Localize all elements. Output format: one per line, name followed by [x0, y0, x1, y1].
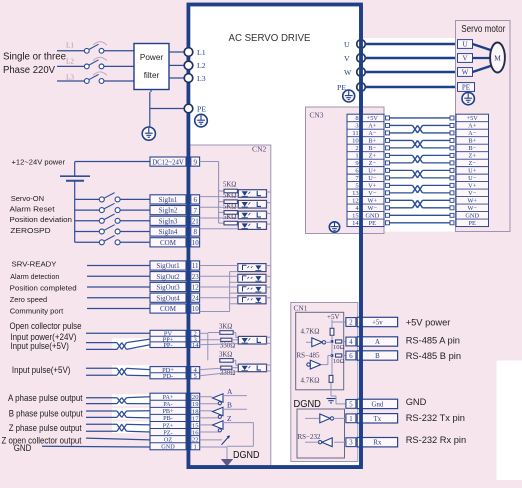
pad encoder A- [386, 131, 455, 135]
resistor 4.7K b [329, 375, 333, 382]
pad encoder A+ [386, 123, 455, 127]
switch SigIn2 [99, 203, 120, 212]
wire switch to SigIn4 [120, 231, 150, 233]
svg-text:PA-: PA- [163, 401, 172, 408]
wire tap RSigIn2 [219, 201, 224, 203]
svg-text:V: V [344, 54, 350, 63]
wire opto PD out1 [267, 364, 271, 366]
wire L2 to filter [104, 65, 134, 67]
terminal PE right [357, 83, 366, 92]
pad encoder GND [386, 213, 455, 217]
resistor 330 a [221, 338, 232, 341]
white wire channel drive to motor [363, 38, 456, 232]
pad encoder Z- [386, 161, 455, 165]
terminal COM pin 10 [150, 238, 200, 247]
svg-text:8: 8 [193, 228, 197, 236]
svg-text:L3: L3 [197, 74, 206, 83]
svg-text:Z: Z [227, 414, 232, 423]
wire PP- to opto [200, 344, 239, 345]
svg-text:SigIn2: SigIn2 [159, 207, 178, 215]
svg-text:14: 14 [352, 220, 359, 227]
wire encoder pair B+ [390, 140, 451, 147]
white area bottom right [497, 361, 522, 481]
svg-text:Single or three: Single or three [3, 52, 66, 63]
wire 3Kb to opto [233, 360, 238, 365]
svg-text:Open collector pulse: Open collector pulse [10, 321, 82, 331]
wire encoder pair W+ [390, 200, 451, 207]
svg-text:22: 22 [192, 437, 199, 444]
wire PP- left [86, 348, 117, 350]
svg-text:3KΩ: 3KΩ [219, 351, 232, 358]
wire driver out B [223, 408, 247, 410]
svg-text:SigIn3: SigIn3 [159, 217, 178, 225]
svg-text:A: A [227, 387, 233, 396]
wire to driver A- [200, 403, 220, 405]
svg-text:U+: U+ [368, 168, 377, 175]
svg-text:Community port: Community port [10, 306, 64, 315]
pad encoder W- [386, 206, 455, 210]
svg-text:PE: PE [469, 220, 477, 227]
wire tap RSigIn3 [219, 211, 224, 213]
terminal V right [357, 54, 366, 63]
svg-text:2: 2 [349, 320, 353, 327]
wire encoder pair A+ [390, 125, 451, 132]
svg-text:Zero speed: Zero speed [10, 295, 47, 304]
wire R to opto SigIn1 [237, 190, 239, 192]
wire pin4 [342, 341, 346, 343]
pad encoder Z+ [386, 153, 455, 157]
connector CN3 region [306, 107, 385, 234]
svg-text:COM: COM [160, 239, 177, 247]
wire PA- left [86, 403, 117, 405]
svg-text:Z−: Z− [468, 160, 476, 167]
AC servo drive body [189, 5, 361, 468]
wire switch to SigIn2 [120, 209, 150, 211]
optocoupler SigIn4 [238, 222, 266, 230]
terminal SigIn2 pin 7 [150, 206, 200, 215]
svg-text:12: 12 [192, 284, 200, 292]
wire COM rail [200, 272, 230, 312]
resistor 3K b [220, 359, 233, 363]
optocoupler PP [238, 336, 266, 344]
resistor 10 b [336, 354, 342, 357]
connector CN2 region [190, 145, 271, 466]
svg-text:B phase pulse output: B phase pulse output [9, 408, 83, 418]
optocoupler SigOut4 [238, 296, 266, 304]
svg-text:17: 17 [192, 415, 199, 422]
optocoupler SigIn3 [238, 211, 266, 219]
twisted pair encoder W+ [413, 200, 423, 207]
svg-text:Tx: Tx [374, 416, 382, 423]
wire PB+ left [86, 410, 117, 412]
CN3 pin table [347, 114, 384, 227]
svg-text:24: 24 [192, 294, 200, 302]
svg-text:2: 2 [355, 145, 358, 152]
svg-text:SigOut4: SigOut4 [156, 294, 180, 302]
terminal SigOut3 pin 12 [150, 282, 200, 291]
motor encoder pin table [456, 114, 489, 227]
terminal SigIn3 pin 21 [150, 216, 200, 225]
svg-text:B−: B− [468, 145, 476, 152]
wire opto out SigOut2 [266, 275, 270, 277]
pad encoder U+ [386, 168, 455, 172]
ground motor PE [462, 92, 474, 105]
switch S3 [84, 74, 104, 83]
svg-text:U−: U− [468, 175, 477, 182]
transistor OZ arrow [222, 435, 230, 445]
terminal block PV PP+ PP- [150, 330, 200, 349]
resistor 10 a [336, 340, 342, 343]
svg-text:14: 14 [192, 342, 199, 349]
servo motor box [456, 21, 511, 232]
svg-text:18: 18 [192, 408, 199, 415]
svg-text:A+: A+ [468, 123, 477, 130]
svg-text:19: 19 [192, 401, 199, 408]
svg-text:A: A [375, 339, 380, 346]
svg-text:L3: L3 [66, 74, 74, 82]
wire 5v rail [332, 320, 346, 329]
wire SigOut2 to opto [200, 275, 238, 277]
wire to COM switch [75, 241, 100, 243]
terminal U right [357, 40, 366, 49]
wire to switch SigIn1 [75, 198, 100, 200]
svg-text:23: 23 [192, 273, 200, 281]
wire R to opto SigIn2 [237, 201, 239, 203]
svg-text:9: 9 [193, 158, 197, 166]
svg-text:L1: L1 [66, 42, 74, 50]
wire PA+ left [86, 397, 117, 399]
pad encoder B+ [386, 138, 455, 142]
buffer rs485 b [307, 356, 332, 370]
svg-text:GND: GND [406, 397, 427, 407]
wire pin9 feed [200, 162, 219, 224]
wire encoder +5V [390, 117, 451, 119]
svg-text:SigOut2: SigOut2 [156, 273, 180, 281]
svg-text:RS-232 Rx pin: RS-232 Rx pin [406, 435, 466, 445]
terminal DC12~24V pin 9 [150, 157, 200, 166]
resistor 5K SigIn1 [224, 189, 237, 193]
wire R330b to opto [232, 367, 238, 369]
wire to driver B+ [200, 410, 212, 412]
wire encoder GND [390, 214, 451, 216]
wire pin5 [331, 396, 346, 404]
wire SigIn1 to opto [200, 196, 239, 198]
svg-text:CN3: CN3 [310, 111, 324, 120]
svg-text:OZ: OZ [164, 436, 172, 443]
svg-text:10: 10 [192, 239, 200, 247]
svg-text:L1: L1 [197, 48, 206, 57]
wire encoder pair V+ [390, 185, 451, 192]
wire motor W [473, 66, 493, 73]
optocoupler SigOut3 [238, 285, 266, 293]
wire PD- right [127, 374, 151, 377]
svg-text:Z+: Z+ [369, 153, 377, 160]
svg-text:DC12~24V: DC12~24V [152, 159, 184, 166]
svg-text:PE: PE [197, 104, 206, 113]
wire to driver B- [200, 417, 220, 419]
terminal CN1 pin 1 [346, 414, 398, 423]
svg-text:+5v: +5v [372, 320, 383, 327]
wire filter to L1 terminal [169, 51, 184, 53]
svg-text:Input pulse(+5V): Input pulse(+5V) [10, 341, 69, 351]
svg-text:1: 1 [349, 416, 352, 423]
switch S2 [84, 60, 104, 69]
terminal CN1 pin 2 [346, 317, 398, 326]
terminal CN1 pin 5 [346, 399, 398, 408]
pad encoder B- [386, 146, 455, 150]
svg-text:U: U [344, 40, 350, 49]
svg-text:W+: W+ [467, 198, 477, 205]
svg-text:20: 20 [192, 394, 199, 401]
twisted pair PA [117, 398, 127, 404]
svg-text:11: 11 [192, 262, 199, 270]
junction a [331, 340, 334, 343]
svg-text:W+: W+ [368, 198, 378, 205]
ground PE left [195, 114, 208, 127]
svg-text:Power: Power [140, 53, 163, 62]
pad encoder V+ [386, 183, 455, 187]
line driver A [213, 394, 224, 405]
svg-text:+5V: +5V [367, 115, 379, 122]
wire driver out A [223, 395, 247, 397]
wire to switch SigIn4 [75, 231, 100, 233]
svg-text:Z+: Z+ [468, 153, 476, 160]
wire PZ+ left [86, 423, 117, 425]
wire SigOut3 to opto [200, 286, 238, 288]
wire Community port [87, 308, 150, 310]
wire PA+ right [127, 397, 151, 398]
white band PB pair [112, 408, 150, 420]
wire opto PP out1 [267, 336, 271, 338]
wire PZ+ right [127, 423, 151, 426]
svg-text:U: U [462, 41, 467, 49]
wire to switch SigIn2 [75, 209, 100, 211]
svg-text:V−: V− [368, 190, 377, 197]
drive right edge [359, 5, 363, 468]
svg-text:PE: PE [462, 84, 470, 92]
svg-text:DGND: DGND [294, 399, 321, 410]
svg-text:11: 11 [352, 130, 358, 137]
wire filter earth [150, 90, 184, 129]
RS-485 inner box [296, 312, 344, 390]
svg-text:CN1: CN1 [294, 304, 308, 313]
svg-text:PB+: PB+ [162, 408, 174, 415]
ground DGND cn1 [327, 399, 336, 403]
svg-text:10: 10 [352, 138, 359, 145]
wire to switch SigIn3 [75, 220, 100, 222]
wire Z to dgnd [227, 423, 253, 447]
wire PD+ right [127, 368, 151, 369]
wire rail mid [331, 335, 333, 375]
ground PE right [343, 90, 355, 102]
svg-text:7: 7 [193, 207, 197, 215]
terminal COM pin 10 [150, 304, 200, 313]
line driver Z [213, 421, 224, 432]
twisted pair PD [117, 368, 127, 375]
switch COM [99, 236, 120, 245]
svg-text:5: 5 [349, 401, 353, 408]
svg-text:Phase 220V: Phase 220V [3, 65, 55, 76]
terminal SigIn4 pin 8 [150, 227, 200, 236]
svg-text:A−: A− [468, 130, 477, 137]
svg-text:6: 6 [193, 196, 197, 204]
switch SigIn3 [99, 214, 120, 223]
connector CN1 region [291, 303, 358, 462]
ground DGND drive [221, 459, 233, 467]
terminal CN1 pin 3 [346, 438, 398, 447]
wire PV [86, 332, 150, 334]
svg-text:5KΩ: 5KΩ [223, 193, 236, 200]
wire opto out SigOut4 [266, 297, 270, 299]
terminal SigOut4 pin 24 [150, 293, 200, 302]
wire 24V supply [75, 161, 150, 163]
wire switch to SigIn1 [120, 198, 150, 200]
svg-text:filter: filter [144, 71, 160, 80]
wire encoder PE [390, 222, 451, 224]
svg-text:PA+: PA+ [163, 394, 174, 401]
wire SigOut4 to opto [200, 297, 238, 299]
terminal motor PE [458, 83, 475, 92]
optocoupler SigIn1 [238, 190, 266, 198]
wire encoder pair U+ [390, 170, 451, 177]
wire switch to COM [120, 241, 150, 243]
svg-text:3KΩ: 3KΩ [219, 324, 232, 331]
resistor 4.7K a [330, 328, 334, 335]
twisted pair encoder V+ [413, 185, 423, 192]
white band PZ pair [112, 421, 150, 433]
svg-text:+12~24V power: +12~24V power [12, 157, 66, 166]
resistor 5K SigIn4 [224, 221, 237, 225]
wire L2 left [57, 65, 85, 67]
svg-text:B: B [227, 401, 232, 410]
svg-text:W: W [462, 69, 469, 77]
svg-text:+5V: +5V [327, 313, 340, 321]
svg-text:Servo motor: Servo motor [461, 24, 506, 35]
svg-text:PE: PE [369, 220, 377, 227]
wire Zero speed [87, 297, 150, 299]
wire tap RSigIn4 [219, 222, 224, 224]
wire V to motor [365, 57, 458, 60]
wire W to motor [365, 71, 458, 74]
wire PD+ left [86, 367, 117, 369]
svg-text:GND: GND [161, 444, 175, 451]
motor M [490, 43, 505, 73]
svg-text:SigOut3: SigOut3 [156, 284, 180, 292]
junction b [331, 354, 334, 357]
svg-text:V+: V+ [368, 183, 377, 190]
wire SigIn4 to opto [200, 228, 239, 230]
wire opto bottom SigOut2 [230, 281, 238, 283]
wire motor U [473, 44, 493, 51]
svg-text:15: 15 [192, 422, 199, 429]
white band PP pair [112, 338, 150, 349]
switch SigIn4 [99, 225, 120, 234]
wire opto bottom SigOut3 [230, 292, 238, 294]
svg-text:5KΩ: 5KΩ [223, 203, 236, 210]
terminal block pulse outputs [150, 393, 200, 450]
buffer rs232 tx [305, 414, 346, 423]
pad encoder +5V [386, 116, 455, 120]
wire pin6 [342, 355, 346, 357]
wire to driver Z- [200, 431, 220, 433]
svg-text:Z−: Z− [369, 160, 377, 167]
svg-text:Position deviation: Position deviation [10, 215, 73, 224]
wire rail bottom [330, 382, 332, 396]
twisted pair encoder A+ [413, 125, 423, 132]
svg-text:V: V [462, 55, 467, 63]
svg-text:AC SERVO DRIVE: AC SERVO DRIVE [229, 32, 311, 44]
svg-text:Alarm detection: Alarm detection [10, 272, 59, 281]
svg-text:RS-232 Tx pin: RS-232 Tx pin [406, 413, 465, 423]
wire opto out SigOut3 [266, 286, 270, 288]
wire Position completed [87, 286, 150, 288]
svg-text:13: 13 [352, 190, 359, 197]
twisted pair encoder Z+ [413, 155, 423, 162]
wire PB- left [86, 416, 117, 418]
wire L1 left [57, 50, 85, 52]
svg-text:4.7KΩ: 4.7KΩ [301, 377, 320, 385]
pad encoder PE [386, 221, 455, 225]
wire PE to motor [365, 86, 458, 89]
wire opto out SigOut1 [266, 265, 270, 267]
wire to driver Z+ [200, 424, 212, 426]
wire 3Ka to opto [208, 333, 239, 338]
svg-text:RS−232: RS−232 [298, 433, 322, 441]
twisted pair encoder B+ [413, 140, 423, 147]
svg-text:A phase pulse output: A phase pulse output [8, 393, 83, 403]
wire PZ- left [86, 430, 117, 432]
wire SigOut1 to opto [200, 265, 238, 267]
svg-text:PZ-: PZ- [163, 429, 172, 436]
svg-text:+5V: +5V [467, 115, 479, 122]
wire opto PD out2 [267, 370, 271, 372]
svg-text:1: 1 [355, 153, 358, 160]
wire OZ [86, 438, 150, 440]
switch coupling links [93, 42, 107, 76]
svg-text:SRV-READY: SRV-READY [12, 259, 57, 268]
svg-text:GND: GND [14, 443, 32, 453]
svg-text:5KΩ: 5KΩ [223, 214, 236, 221]
wire filter to L3 terminal [169, 77, 184, 79]
svg-text:+5V power: +5V power [406, 317, 451, 327]
svg-text:PZ+: PZ+ [163, 422, 174, 429]
svg-text:5KΩ: 5KΩ [223, 182, 236, 189]
terminal SigOut2 pin 23 [150, 272, 200, 281]
svg-text:PD-: PD- [163, 373, 173, 380]
wire L3 to filter [104, 80, 134, 82]
twisted pair PZ [117, 424, 127, 431]
wire opto bottom SigOut4 [230, 303, 238, 305]
wire PD- left [86, 374, 117, 376]
terminal SigIn1 pin 6 [150, 195, 200, 204]
twisted pair PB [117, 411, 127, 417]
ground below filter [142, 127, 155, 140]
svg-text:12: 12 [352, 198, 359, 205]
svg-text:RS-485 B pin: RS-485 B pin [406, 351, 461, 361]
wire GND [42, 445, 150, 448]
switch S1 [84, 44, 104, 53]
svg-text:A+: A+ [368, 123, 377, 130]
svg-text:W−: W− [368, 205, 378, 212]
optocoupler SigOut1 [238, 264, 266, 272]
wire tap RSigIn1 [219, 190, 224, 192]
svg-text:B: B [375, 353, 380, 360]
wire PD+ to R330b [200, 368, 221, 369]
svg-text:10Ω: 10Ω [333, 344, 345, 351]
wire PP+ right [127, 339, 151, 343]
wire opto out SigIn3 [267, 212, 271, 214]
wire OZ out [200, 439, 222, 441]
